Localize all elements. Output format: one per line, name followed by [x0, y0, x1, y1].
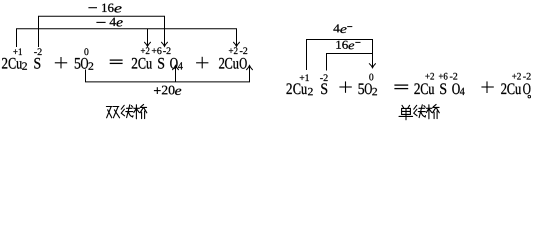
subscript 2 of O2 left: [89, 62, 94, 69]
label +2 over CuO right: [512, 73, 521, 80]
label -2 over CuO right: [523, 73, 530, 80]
label plus sign of +20e: [154, 87, 161, 94]
hanzi 桥 right word: [426, 104, 439, 118]
label 4 of -4e: [110, 18, 116, 26]
label e of +20e: [175, 89, 181, 95]
formula 5 coefficient right: [359, 84, 365, 95]
arrowhead down at +6 of CuSO4: [162, 42, 168, 46]
label 0 over O2 left: [84, 48, 88, 55]
stray ring mark under O of CuO right: [528, 95, 531, 98]
label superscript minus of 16e-: [355, 41, 360, 43]
subscript 2 of Cu2 left: [22, 62, 27, 69]
arrowhead down at +2 of CuO: [234, 42, 240, 46]
subscript 2 of Cu2 right: [308, 88, 313, 95]
label +2 over CuO left: [229, 47, 238, 54]
wire 16e single bridge from S joining arrow: [327, 54, 373, 71]
hanzi 线 right word: [414, 105, 426, 118]
formula 2 coefficient CuSO4 right: [414, 83, 419, 94]
arrowhead down at +2 of CuSO4: [145, 42, 151, 46]
formula 2 coefficient CuO left: [219, 58, 224, 69]
formula 2 coefficient CuO right: [501, 83, 506, 94]
label +6 over S CuSO4 right: [439, 73, 448, 80]
formula O of O2 right: [365, 83, 372, 94]
equals sign right: [394, 85, 408, 89]
label 20 of +20e: [162, 86, 175, 95]
formula Cu of CuO left: [225, 58, 239, 69]
formula Cu of CuSO4 left: [138, 58, 152, 69]
label -2 over O4 left: [163, 47, 170, 54]
label 4 of 4e-: [333, 24, 339, 32]
label e of -4e: [117, 20, 123, 26]
label minus dash of -16e: [88, 7, 97, 9]
label +2 over Cu CuSO4 left: [141, 47, 150, 54]
label +1 over Cu right: [300, 74, 309, 81]
wire 4e single bridge from Cu across to O2: [307, 40, 373, 71]
label e of -16e: [114, 6, 121, 12]
arrowhead up at O of CuO: [247, 66, 253, 70]
label 16 of 16e-: [336, 41, 348, 49]
formula O of CuO right: [523, 83, 530, 94]
label +1 over Cu left: [13, 48, 22, 55]
label -2 over O4 right: [450, 73, 457, 80]
formula Cu right reactant: [293, 83, 307, 94]
formula 2 coefficient left reactant: [2, 58, 7, 69]
formula S of CuSO4 left: [158, 58, 164, 69]
label -2 over S right: [320, 74, 327, 81]
formula Cu left reactant: [9, 58, 22, 69]
label +2 over Cu CuSO4 right: [425, 73, 434, 80]
wire +20e bridge from O2 down and across: [86, 66, 250, 82]
plus sign right reactants: [339, 81, 351, 92]
wire -4e bridge from Cu +1 across to CuO: [17, 29, 237, 47]
plus sign right products: [481, 81, 493, 93]
arrowhead up at O4 of CuSO4: [173, 66, 179, 70]
caption 单线桥: [399, 104, 439, 119]
hanzi 线 left word: [121, 105, 133, 118]
wire -4e branch down to Cu of CuSO4: [147, 29, 149, 46]
hanzi 双: [106, 107, 119, 118]
formula O of CuSO4 right: [452, 83, 459, 94]
label -2 over CuO left: [240, 47, 247, 54]
label minus dash of -4e: [96, 21, 105, 23]
formula Cu of CuSO4 right: [421, 83, 434, 94]
plus sign left reactants: [55, 57, 67, 68]
wire -16e bridge from S -2 up and across: [39, 16, 165, 47]
label superscript minus of 4e-: [347, 26, 352, 28]
label e of 16e-: [349, 44, 355, 50]
formula 2 coefficient CuSO4 left: [132, 58, 137, 69]
formula S right reactant: [321, 83, 327, 94]
formula 2 coefficient right reactant: [287, 83, 292, 94]
formula Cu of CuO right: [507, 83, 521, 94]
formula O of O2 left: [81, 58, 88, 69]
wire +20e branch up to O4 of CuSO4: [175, 66, 177, 82]
formula O of CuSO4 left: [170, 58, 177, 69]
label e of 4e-: [340, 27, 346, 33]
hanzi 单: [399, 105, 413, 120]
formula 5 coefficient left: [75, 58, 81, 69]
formula S left reactant: [34, 58, 40, 69]
label -2 over S left: [34, 48, 41, 55]
label 0 over O2 right: [369, 74, 373, 81]
subscript 4 of SO4 left: [178, 62, 183, 69]
label 16 of -16e: [102, 4, 113, 12]
equals sign left: [110, 60, 123, 63]
caption 双线桥: [106, 104, 146, 118]
subscript 2 of O2 right: [372, 88, 377, 95]
formula S of CuSO4 right: [440, 83, 446, 94]
label +6 over S CuSO4 left: [152, 47, 162, 54]
arrowhead down at 0 over O2 single bridge: [369, 64, 375, 68]
plus sign left products: [196, 57, 208, 69]
subscript 4 of SO4 right: [460, 88, 465, 95]
formula O of CuO left: [240, 58, 247, 69]
hanzi 桥 left word: [134, 104, 147, 118]
